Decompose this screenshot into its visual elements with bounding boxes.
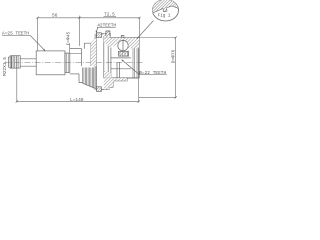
race bore top (104, 37, 139, 39)
hatching fills (91, 31, 139, 91)
boot big clamp band (95, 33, 96, 90)
leader fig1 (137, 21, 154, 39)
boot small clamp (65, 53, 70, 72)
bottom track verticals (117, 62, 120, 78)
inner bore lines (111, 58, 131, 69)
C ext line (69, 44, 71, 54)
leaders (30, 21, 153, 75)
inner race block (118, 51, 128, 56)
race bottom mouth hatch (104, 70, 111, 78)
boot big clamp bottom block (97, 87, 102, 92)
stub groove verticals (13, 56, 18, 68)
race face groove verticals (133, 38, 137, 79)
svg-text:Fig 1: Fig 1 (158, 13, 171, 18)
stub shaft end face (9, 57, 11, 67)
right bracket dim (139, 38, 176, 98)
ext right (139, 18, 141, 38)
svg-text:L=149: L=149 (70, 97, 84, 103)
svg-text:B=22 TEETH: B=22 TEETH (139, 70, 166, 76)
boot fold right vertical (90, 43, 92, 66)
bell top wall hatch band (104, 38, 139, 49)
svg-text:C=Φ45: C=Φ45 (65, 31, 71, 45)
boot bottom striped block (83, 68, 96, 89)
boot end hatch band top (91, 38, 96, 66)
snap ring hook block (106, 31, 110, 36)
ball top (118, 40, 128, 50)
race bore bottom (104, 77, 139, 79)
boot fold bottom step (79, 74, 83, 83)
L dim (17, 68, 139, 102)
boot fold top edge (84, 43, 91, 48)
svg-text:42TEETH: 42TEETH (97, 23, 116, 29)
abs notch (121, 35, 124, 37)
race right face (137, 38, 140, 79)
centerline (4, 61, 144, 63)
svg-text:M22X1.5: M22X1.5 (2, 57, 8, 76)
svg-text:D=Φ76: D=Φ76 (171, 49, 177, 63)
tick slashes top (37, 17, 141, 19)
svg-text:A=25 TEETH: A=25 TEETH (2, 31, 29, 37)
boot neck inner line (70, 52, 82, 54)
leader B (122, 60, 140, 75)
dimension lines (16, 16, 177, 103)
boot neck top line (70, 48, 82, 50)
stub washer band (10, 56, 11, 68)
spline section A rect (36, 51, 65, 75)
race left mouth verticals (104, 38, 111, 78)
boot neck bottom line (70, 73, 79, 75)
detail circle fig1 (152, 0, 179, 21)
texts (2, 11, 177, 103)
boot big clamp top block (97, 33, 102, 38)
race bottom wall hatch (104, 78, 127, 89)
race bottom lip (102, 78, 140, 89)
svg-text:56: 56 (52, 13, 58, 19)
ext mid tick (78, 16, 80, 46)
top dim line (38, 17, 140, 19)
ext line 56 left (37, 18, 39, 51)
boot fold step vertical (81, 49, 83, 66)
boot bottom block lower edge (83, 83, 96, 89)
leader 42teeth (96, 27, 98, 32)
shaft (20, 59, 36, 66)
bell lip top hatch (102, 34, 110, 38)
leader A (30, 35, 45, 50)
stub threaded/spline block (12, 56, 21, 68)
race outer top lip (102, 33, 111, 37)
